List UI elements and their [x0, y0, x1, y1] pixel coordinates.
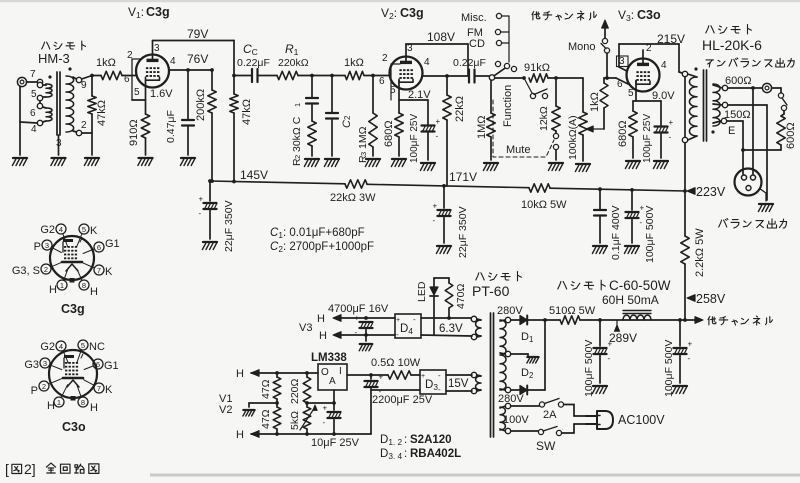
svg-text:Mono: Mono — [568, 41, 596, 53]
svg-text:108V: 108V — [427, 30, 455, 44]
svg-text:G1: G1 — [105, 238, 120, 250]
svg-text:1kΩ: 1kΩ — [344, 57, 364, 69]
svg-text:1MΩ: 1MΩ — [357, 126, 369, 149]
svg-text:H: H — [317, 313, 325, 325]
svg-text:3: 3 — [359, 152, 368, 156]
svg-text:LED: LED — [416, 281, 428, 302]
svg-text:C3o: C3o — [637, 8, 661, 22]
svg-text:+: + — [433, 202, 438, 211]
svg-text:100V: 100V — [503, 414, 529, 426]
svg-text:[: [ — [5, 461, 9, 477]
svg-text:S2A120: S2A120 — [410, 434, 452, 446]
svg-text:P: P — [31, 385, 38, 397]
svg-text:2: 2 — [382, 53, 388, 64]
svg-text:9.0V: 9.0V — [652, 90, 675, 102]
svg-text:100μF 500V: 100μF 500V — [644, 206, 656, 263]
svg-text:6: 6 — [617, 79, 623, 90]
svg-text:220Ω: 220Ω — [289, 378, 301, 404]
svg-text:91kΩ: 91kΩ — [524, 62, 550, 74]
svg-text:H: H — [236, 368, 244, 380]
svg-text:6.3V: 6.3V — [439, 323, 463, 335]
svg-text:C-60-50W: C-60-50W — [609, 278, 671, 293]
svg-text:H: H — [236, 429, 244, 441]
svg-text:2: 2 — [293, 155, 302, 159]
svg-text:680Ω: 680Ω — [383, 120, 395, 147]
svg-text:10μF 25V: 10μF 25V — [311, 437, 360, 449]
svg-text:47Ω: 47Ω — [260, 409, 272, 429]
svg-text:1: 1 — [60, 281, 64, 290]
svg-text:5: 5 — [81, 341, 85, 350]
svg-text:680Ω: 680Ω — [617, 120, 629, 147]
svg-text:1kΩ: 1kΩ — [96, 57, 116, 69]
svg-text:5: 5 — [82, 225, 86, 234]
svg-text:0.47μF: 0.47μF — [165, 110, 177, 143]
svg-text:AC100V: AC100V — [618, 413, 665, 427]
svg-text:3: 3 — [43, 359, 47, 368]
svg-text:V3: V3 — [299, 322, 312, 334]
svg-text:+: + — [396, 317, 400, 324]
svg-text:0.22μF: 0.22μF — [453, 57, 486, 69]
svg-text:470Ω: 470Ω — [455, 283, 467, 309]
svg-text:6: 6 — [96, 360, 100, 369]
svg-text:H: H — [90, 402, 98, 414]
svg-text:223V: 223V — [696, 185, 726, 199]
svg-text:G1: G1 — [104, 360, 119, 372]
svg-text:K: K — [105, 266, 113, 278]
svg-text:-: - — [199, 209, 202, 218]
svg-text:-: - — [688, 354, 691, 363]
svg-text:C3o: C3o — [62, 420, 86, 434]
svg-text:-: - — [436, 132, 439, 141]
svg-text:LM338: LM338 — [311, 352, 347, 364]
svg-text:7: 7 — [30, 69, 36, 80]
svg-text:22kΩ: 22kΩ — [454, 96, 466, 122]
svg-text:G3, S: G3, S — [12, 265, 40, 277]
svg-text:76V: 76V — [187, 52, 208, 66]
svg-text:2.2kΩ 5W: 2.2kΩ 5W — [694, 228, 706, 277]
svg-text:8: 8 — [82, 281, 86, 290]
svg-text:G2: G2 — [40, 341, 55, 353]
svg-text::: : — [404, 448, 407, 460]
svg-text:0.1μF 400V: 0.1μF 400V — [610, 206, 622, 261]
svg-text:100kΩ(A): 100kΩ(A) — [567, 115, 579, 160]
svg-text:6: 6 — [379, 76, 385, 87]
svg-text:+: + — [355, 314, 360, 323]
svg-text:1: 1 — [293, 103, 302, 107]
svg-text:A: A — [329, 376, 336, 387]
svg-text:H: H — [90, 286, 98, 298]
svg-text:60H 50mA: 60H 50mA — [602, 293, 659, 307]
svg-text:Mute: Mute — [506, 144, 530, 156]
svg-text:145V: 145V — [240, 168, 268, 182]
svg-text:10kΩ 5W: 10kΩ 5W — [521, 199, 567, 211]
svg-text:600Ω: 600Ω — [785, 122, 797, 149]
svg-text:5: 5 — [628, 88, 634, 99]
svg-text:1: 1 — [57, 398, 61, 407]
svg-text:-: - — [355, 328, 358, 337]
svg-text:100μF 500V: 100μF 500V — [583, 340, 595, 397]
svg-text:C2: 2700pF+1000pF: C2: 2700pF+1000pF — [270, 241, 374, 254]
svg-text:+: + — [421, 373, 425, 380]
svg-text:-: - — [323, 418, 326, 427]
svg-text:1kΩ: 1kΩ — [589, 92, 601, 112]
svg-text:V2: V2 — [219, 404, 232, 416]
svg-text:100μF 25V: 100μF 25V — [409, 114, 420, 163]
svg-text:5: 5 — [31, 89, 37, 100]
svg-text:3: 3 — [619, 56, 625, 67]
svg-text:P: P — [34, 241, 41, 253]
svg-text:150Ω: 150Ω — [724, 109, 751, 121]
svg-text:510Ω 5W: 510Ω 5W — [549, 305, 596, 317]
svg-text:-: - — [669, 133, 672, 142]
svg-text:2200μF 25V: 2200μF 25V — [372, 394, 433, 406]
svg-text:G2: G2 — [40, 224, 55, 236]
svg-text:200kΩ: 200kΩ — [195, 89, 207, 121]
svg-text:171V: 171V — [449, 170, 477, 184]
svg-text:280V: 280V — [497, 305, 523, 317]
svg-text:0.5Ω 10W: 0.5Ω 10W — [371, 357, 421, 369]
svg-text:6: 6 — [124, 74, 130, 85]
svg-text:289V: 289V — [609, 331, 637, 345]
svg-text:600Ω: 600Ω — [725, 75, 752, 87]
svg-text:K: K — [105, 384, 113, 396]
svg-text:9: 9 — [81, 80, 87, 91]
svg-text:+: + — [669, 118, 674, 127]
svg-text:2: 2 — [343, 115, 352, 120]
svg-text:0.22μF: 0.22μF — [237, 57, 270, 69]
svg-text:RBA402L: RBA402L — [410, 448, 461, 460]
svg-text:H: H — [319, 330, 327, 342]
svg-text:-: - — [640, 218, 643, 227]
svg-text:NC: NC — [89, 341, 105, 353]
svg-text:2]: 2] — [24, 461, 36, 477]
svg-text:280V: 280V — [498, 393, 524, 405]
svg-text:22μF 350V: 22μF 350V — [223, 200, 235, 252]
svg-text:3: 3 — [154, 43, 160, 54]
svg-text:4: 4 — [170, 56, 176, 67]
svg-text:4: 4 — [31, 124, 37, 135]
svg-text:8: 8 — [81, 398, 85, 407]
svg-text:2A: 2A — [543, 409, 557, 421]
svg-text:1.6V: 1.6V — [150, 88, 173, 100]
svg-text:15V: 15V — [448, 378, 469, 390]
svg-text:-: - — [413, 315, 416, 324]
svg-text:47kΩ: 47kΩ — [96, 100, 108, 126]
svg-text:22kΩ 3W: 22kΩ 3W — [330, 192, 376, 204]
svg-text:7: 7 — [97, 384, 101, 393]
svg-text:C1: 0.01μF+680pF: C1: 0.01μF+680pF — [270, 227, 365, 240]
svg-text:3: 3 — [45, 241, 49, 250]
svg-text:30kΩ C: 30kΩ C — [291, 116, 303, 152]
svg-text:+: + — [379, 373, 384, 382]
svg-text:-: - — [608, 354, 611, 363]
svg-text:79V: 79V — [187, 27, 208, 41]
svg-text:4: 4 — [59, 225, 63, 234]
svg-text:C: C — [341, 120, 353, 128]
svg-text:+: + — [688, 340, 693, 349]
svg-text:2: 2 — [42, 382, 46, 391]
svg-text:22μF 350V: 22μF 350V — [457, 206, 469, 258]
svg-text:I: I — [339, 366, 342, 377]
svg-text:H: H — [47, 400, 55, 412]
svg-text:E: E — [728, 125, 735, 137]
svg-text:4: 4 — [424, 57, 430, 68]
svg-text:+: + — [199, 195, 204, 204]
svg-text:1MΩ: 1MΩ — [476, 115, 488, 139]
svg-text:4: 4 — [59, 342, 63, 351]
svg-text:CD: CD — [469, 38, 485, 50]
svg-text:47Ω: 47Ω — [260, 379, 272, 399]
svg-text:Function: Function — [502, 85, 514, 127]
svg-text:-: - — [396, 330, 399, 339]
svg-text:HL-20K-6: HL-20K-6 — [702, 37, 762, 53]
svg-text:+: + — [608, 340, 613, 349]
svg-text:6: 6 — [30, 108, 36, 119]
svg-text:100μF 500V: 100μF 500V — [663, 340, 675, 397]
svg-text:+: + — [323, 404, 328, 413]
svg-text:O: O — [321, 367, 329, 378]
svg-text:4: 4 — [661, 60, 667, 71]
svg-text:910Ω: 910Ω — [128, 119, 140, 146]
svg-text:H: H — [49, 284, 57, 296]
svg-text:258V: 258V — [696, 292, 726, 306]
svg-text::: : — [404, 434, 407, 446]
svg-text:47kΩ: 47kΩ — [241, 99, 253, 125]
svg-text:2: 2 — [44, 265, 48, 274]
svg-text:HM-3: HM-3 — [38, 51, 70, 66]
svg-text:K: K — [90, 225, 98, 237]
svg-text:Misc.: Misc. — [461, 12, 487, 24]
svg-text:6: 6 — [97, 243, 101, 252]
svg-text:220kΩ: 220kΩ — [278, 57, 309, 69]
svg-text:5: 5 — [134, 87, 140, 98]
svg-text:5kΩ: 5kΩ — [289, 411, 301, 430]
svg-text:-: - — [438, 371, 441, 380]
svg-text:2: 2 — [81, 120, 87, 131]
svg-text:100μF 25V: 100μF 25V — [642, 114, 653, 163]
svg-text:-: - — [438, 385, 441, 394]
svg-text:7: 7 — [97, 266, 101, 275]
svg-text:C3g: C3g — [61, 302, 85, 316]
svg-text:12kΩ: 12kΩ — [538, 106, 550, 131]
svg-text:C3g: C3g — [400, 6, 424, 20]
svg-text:+: + — [436, 117, 441, 126]
svg-text:PT-60: PT-60 — [472, 283, 510, 299]
svg-text:G3: G3 — [24, 359, 39, 371]
svg-text:C3g: C3g — [146, 5, 170, 19]
svg-text:2.1V: 2.1V — [408, 89, 431, 101]
svg-text:-: - — [433, 216, 436, 225]
svg-text:SW: SW — [536, 439, 556, 453]
